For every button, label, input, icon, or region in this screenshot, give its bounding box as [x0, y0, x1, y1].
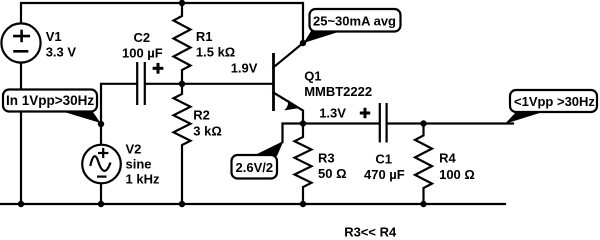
callout 25~30mA avg	[304, 9, 401, 43]
svg-text:1.3V: 1.3V	[319, 105, 346, 120]
svg-text:25~30mA avg: 25~30mA avg	[313, 13, 396, 28]
transistor Q1 base bar	[272, 53, 275, 111]
callout <1Vpp >30Hz	[505, 90, 597, 124]
wire C2 right plate to base node	[146, 83, 182, 85]
node R1 top	[179, 0, 185, 6]
node output	[420, 120, 426, 126]
resistor R1	[174, 3, 191, 84]
svg-text:50 Ω: 50 Ω	[318, 166, 347, 181]
svg-text:In 1Vpp>30Hz: In 1Vpp>30Hz	[6, 93, 94, 108]
svg-text:1.5 kΩ: 1.5 kΩ	[196, 45, 235, 60]
node R3 bottom	[300, 201, 306, 207]
svg-text:100 Ω: 100 Ω	[439, 167, 475, 182]
resistor R4	[415, 124, 432, 205]
node V2 bottom	[98, 201, 104, 207]
capacitor C2 polarity plus	[153, 63, 164, 74]
transistor Q1 emitter arrowhead	[284, 100, 297, 111]
node input callout anchor	[98, 121, 104, 127]
node collector callout anchor	[300, 40, 306, 46]
wire base node to Q1 base	[182, 83, 272, 85]
svg-text:C1: C1	[375, 152, 392, 167]
node base	[179, 81, 185, 87]
capacitor C2 plates	[137, 62, 145, 105]
wire V1 bottom to ground rail	[20, 63, 22, 205]
callout 2.6V/2	[232, 141, 284, 179]
svg-text:1 kHz: 1 kHz	[126, 172, 160, 187]
svg-text:100 µF: 100 µF	[122, 46, 163, 61]
capacitor C1 plates	[380, 103, 387, 143]
svg-text:sine: sine	[126, 157, 152, 172]
capacitor C1 polarity plus	[360, 108, 370, 118]
wire output to callout	[424, 122, 514, 124]
svg-text:R4: R4	[439, 151, 456, 166]
resistor R2	[174, 84, 191, 204]
node R2 bottom	[179, 201, 185, 207]
svg-text:<1Vpp >30Hz: <1Vpp >30Hz	[514, 94, 595, 109]
callout In 1Vpp>30Hz	[3, 90, 101, 124]
wire V2 bottom	[100, 183, 102, 204]
svg-text:3 kΩ: 3 kΩ	[193, 124, 222, 139]
resistor R3	[295, 124, 312, 205]
svg-text:3.3 V: 3.3 V	[46, 45, 77, 60]
node R4 bottom	[420, 201, 426, 207]
wire emitter node to C1	[303, 122, 379, 124]
svg-text:1.9V: 1.9V	[231, 61, 258, 76]
node V1 bottom	[18, 201, 24, 207]
callout leader for 2.6V/2	[283, 124, 304, 143]
transistor Q1 emitter wire	[273, 93, 303, 124]
svg-text:R3<< R4: R3<< R4	[344, 225, 397, 239]
svg-text:R3: R3	[318, 151, 335, 166]
wire C1 to R4 node	[387, 122, 423, 124]
voltage source V2 sine	[82, 145, 121, 184]
wire top rail	[21, 3, 303, 43]
svg-text:V2: V2	[126, 142, 142, 157]
svg-text:MMBT2222: MMBT2222	[304, 84, 372, 99]
transistor Q1 collector wire	[273, 43, 303, 68]
svg-text:Q1: Q1	[304, 69, 321, 84]
svg-text:R1: R1	[196, 29, 213, 44]
svg-text:C2: C2	[134, 30, 151, 45]
voltage source V1	[1, 23, 40, 62]
wire bottom ground rail	[0, 203, 505, 205]
node emitter	[300, 120, 306, 126]
svg-text:R2: R2	[193, 108, 210, 123]
svg-text:V1: V1	[46, 29, 62, 44]
wire V2 top to C2 left plate	[101, 84, 136, 145]
svg-text:2.6V/2: 2.6V/2	[236, 160, 274, 175]
svg-text:470 µF: 470 µF	[364, 167, 405, 182]
